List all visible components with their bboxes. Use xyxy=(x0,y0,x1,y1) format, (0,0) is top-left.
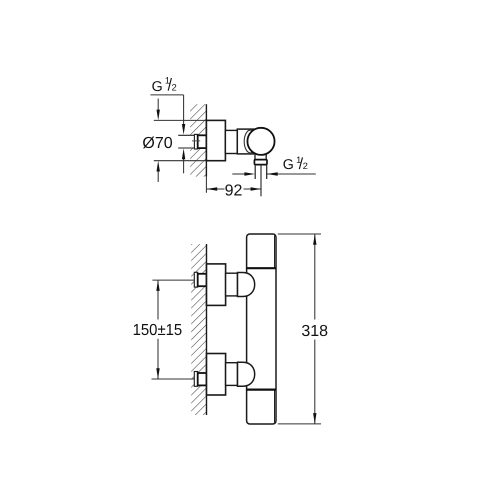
lower nut body xyxy=(198,373,207,385)
mixer body bar xyxy=(247,234,276,424)
svg-text:318: 318 xyxy=(301,323,328,340)
Ø70 bottom arrow xyxy=(157,161,160,172)
outlet G1/2 leader line with arrow to pipe right edge xyxy=(267,173,316,175)
dimension 318 line upper segment xyxy=(314,234,316,320)
upper escutcheon xyxy=(207,264,226,306)
dimension 150±15 top arrow xyxy=(156,280,159,291)
dimension 150±15 line lower segment xyxy=(157,339,159,379)
318 extension line top xyxy=(278,233,321,235)
wall hatch (top view) xyxy=(190,104,206,176)
Ø70 extension line bottom xyxy=(154,160,207,162)
svg-text:2: 2 xyxy=(303,161,308,171)
Ø70 top arrow xyxy=(157,110,160,121)
arrow to outlet pipe right edge xyxy=(267,172,278,175)
dimension 92 line left segment xyxy=(206,188,224,190)
outlet neck under handle xyxy=(255,151,266,160)
arrow to inlet pipe bottom edge xyxy=(182,148,185,159)
lower pipe / extension line xyxy=(152,378,195,380)
upper nut flange xyxy=(194,272,197,287)
opposing arrow to pipe bottom xyxy=(183,158,185,173)
dimension 92 line right segment xyxy=(244,188,262,190)
wall hatch (bottom view) xyxy=(191,244,206,415)
dimension 318 line lower segment xyxy=(314,340,316,424)
upper s-union block xyxy=(226,273,238,296)
thermostat handle circle xyxy=(247,128,274,155)
cartridge housing (top view) xyxy=(237,129,253,154)
leader drop with arrow to pipe top xyxy=(183,95,185,126)
318 extension line bottom xyxy=(278,423,321,425)
label G1/2 (inlet) xyxy=(152,76,177,95)
escutcheon (top view) xyxy=(206,120,225,160)
lower nut flange xyxy=(194,372,197,387)
inlet nut flange behind wall xyxy=(194,134,197,149)
inlet pipe lines (top view) xyxy=(178,134,194,136)
dimension 318 bottom arrow xyxy=(313,413,316,424)
wall face extension down to 92-dim xyxy=(205,177,207,193)
dimension 92 right arrow xyxy=(251,187,262,190)
upper cap joint line xyxy=(247,267,276,269)
housing cap arc xyxy=(244,130,256,153)
upper dome connector xyxy=(238,273,255,297)
dimension 150±15 bottom arrow xyxy=(156,368,159,379)
opposing arrow to pipe left edge xyxy=(232,173,245,175)
inlet pipe bore (white over hatch) xyxy=(178,136,194,148)
outlet union collar xyxy=(254,160,267,165)
lower dome connector xyxy=(238,362,255,386)
wall face line (bottom view) xyxy=(206,244,208,415)
upper cap inner edge line xyxy=(274,236,276,269)
dimension 318 top arrow xyxy=(313,234,316,245)
leader line under G1/2 inlet xyxy=(150,94,183,96)
upper pipe / extension line xyxy=(152,279,194,281)
body neck (top view) xyxy=(225,130,237,153)
svg-text:Ø70: Ø70 xyxy=(142,135,172,152)
lower escutcheon xyxy=(207,354,226,396)
outlet pipe right edge xyxy=(266,165,268,179)
label G1/2 (outlet) xyxy=(283,155,308,173)
wall face line (top view) xyxy=(205,104,207,176)
lower cap inner edge line xyxy=(274,390,276,423)
inlet nut inner line xyxy=(192,140,200,142)
lower s-union block xyxy=(226,363,238,386)
dimension 150±15 line upper segment xyxy=(157,280,159,319)
svg-text:150±15: 150±15 xyxy=(133,322,183,339)
svg-text:92: 92 xyxy=(225,183,243,200)
svg-text:G: G xyxy=(152,79,163,95)
inlet nut body behind wall xyxy=(198,135,207,148)
Ø70 extension line top xyxy=(154,119,207,121)
arrow to inlet pipe top edge xyxy=(182,124,185,135)
svg-text:G: G xyxy=(283,157,294,173)
upper nut body xyxy=(198,274,207,286)
svg-text:2: 2 xyxy=(172,82,177,92)
outlet pipe left edge xyxy=(254,165,256,179)
lower cap joint line xyxy=(247,389,276,391)
arrow to outlet pipe left edge xyxy=(244,172,255,175)
Ø70 dimension arrows xyxy=(157,99,159,112)
outlet pipe centerline extension xyxy=(260,165,262,197)
dimension 92 left arrow xyxy=(206,187,217,190)
